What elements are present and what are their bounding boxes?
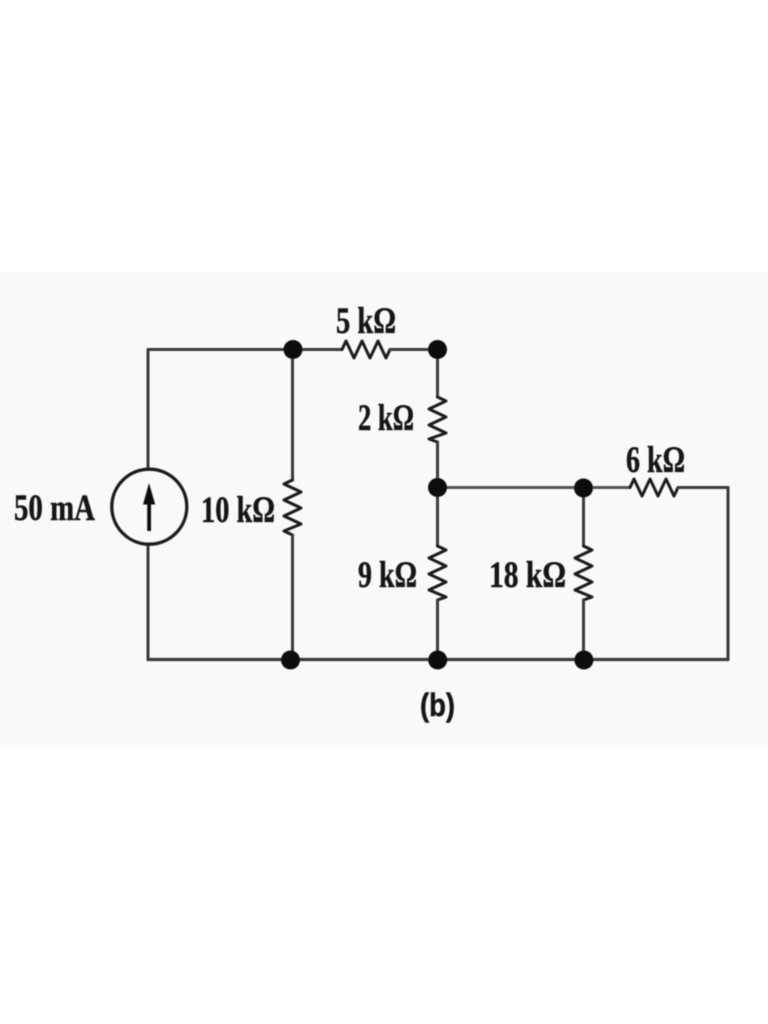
svg-text:2 kΩ: 2 kΩ [358, 398, 414, 439]
wire 18k bottom [582, 600, 585, 660]
resistor R6 18 kOhm zigzag [575, 546, 592, 600]
current source I1 circle [112, 469, 187, 544]
resistor R1 5 kOhm zigzag [342, 341, 390, 358]
svg-text:(b): (b) [420, 687, 455, 723]
wire right vertical [727, 488, 730, 660]
node A top junction at 10k [284, 340, 303, 359]
svg-text:10 kΩ: 10 kΩ [201, 490, 275, 531]
node G bottom junction 3 [574, 651, 593, 670]
wire 10k bottom [291, 535, 294, 660]
wire 2k bottom to node [436, 442, 439, 488]
node D middle junction at 18k [574, 479, 593, 498]
wire top right of 5k [390, 348, 438, 351]
node C middle junction at 9k [428, 478, 447, 497]
wire right of 6k [678, 486, 728, 489]
svg-text:9 kΩ: 9 kΩ [358, 555, 417, 596]
current source I1 arrow [143, 483, 155, 531]
svg-text:5 kΩ: 5 kΩ [336, 301, 396, 342]
wire bottom horizontal [148, 658, 728, 661]
resistor R4 6 kOhm zigzag [630, 479, 678, 496]
wire left vertical lower [147, 545, 150, 660]
resistor R2 10 kOhm zigzag [284, 480, 301, 535]
wire 10k top [291, 350, 294, 481]
resistor R5 9 kOhm zigzag [429, 546, 446, 600]
svg-text:6 kΩ: 6 kΩ [626, 440, 685, 481]
svg-text:18 kΩ: 18 kΩ [489, 555, 566, 596]
node B top junction at 2k [428, 340, 447, 359]
wire 18k top [582, 488, 585, 547]
node E bottom junction 1 [281, 651, 300, 670]
node F bottom junction 2 [428, 651, 447, 670]
resistor R3 2 kOhm zigzag [429, 397, 446, 442]
wire 9k bottom [436, 600, 439, 660]
wire left vertical upper [147, 350, 150, 470]
wire top left horizontal [148, 348, 342, 351]
wire middle horizontal [438, 486, 631, 489]
svg-text:50 mA: 50 mA [14, 488, 95, 529]
wire 9k top [436, 488, 439, 547]
wire 2k top [436, 350, 439, 398]
